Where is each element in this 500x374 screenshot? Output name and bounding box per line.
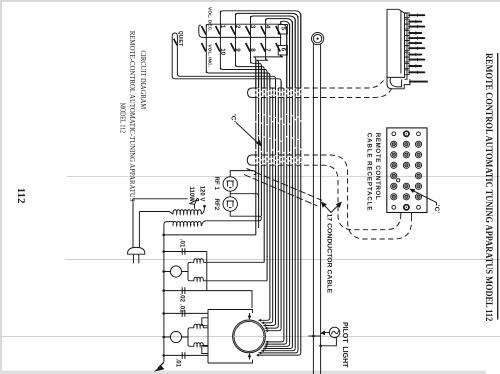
- switch blade top 4: [261, 26, 265, 35]
- svg-text:’C’: ’C’: [230, 114, 237, 122]
- svg-text:LIGHT: LIGHT: [341, 346, 348, 368]
- transformer T1 secondary winding: [173, 221, 201, 225]
- svg-text:VOL. INC.: VOL. INC.: [207, 44, 213, 67]
- switch column 5 wire: [280, 21, 282, 57]
- svg-text:REMOTE CONTROL AUTOMATIC TUNIN: REMOTE CONTROL AUTOMATIC TUNING APPARATU…: [484, 53, 495, 322]
- receptacle socket r6c3: [415, 183, 421, 189]
- svg-text:.01: .01: [178, 304, 185, 313]
- plug prong 1: [132, 254, 134, 263]
- switch blade bottom 6: [276, 43, 280, 52]
- wire switch top 1: [220, 11, 300, 88]
- wire RF1-RF2 junction: [230, 191, 258, 197]
- svg-text:120 V: 120 V: [199, 186, 205, 202]
- solenoid B1 circle: [170, 331, 181, 342]
- receptacle keyed socket row1: [404, 131, 409, 136]
- bus left hook: [199, 25, 203, 37]
- receptacle socket r6c1: [391, 183, 397, 189]
- receptacle keyed socket row8: [404, 205, 409, 210]
- switch column 0 wire: [205, 24, 207, 73]
- switch blade bottom 10: [216, 43, 220, 52]
- connector P1 pin 12: [410, 81, 427, 83]
- svg-text:8: 8: [249, 48, 256, 52]
- conductor 10: [280, 81, 282, 88]
- switch blade bottom 9: [231, 43, 235, 52]
- svg-text:.01: .01: [178, 239, 185, 248]
- conductor 9: [277, 88, 279, 98]
- boxed contact 6: [278, 46, 287, 56]
- scan edge bottom: [0, 371, 486, 374]
- wire switch bottom 7: [256, 58, 268, 88]
- svg-text:.01: .01: [175, 358, 182, 367]
- conductor 16: [297, 16, 299, 88]
- fold line B: [65, 259, 500, 261]
- wire switch bottom 9: [236, 64, 265, 88]
- switch column 2 wire: [235, 13, 237, 66]
- receptacle socket r7c2: [403, 194, 409, 200]
- plug cord left: [133, 199, 188, 248]
- wire switch top 4: [266, 19, 293, 88]
- connector P1 pin 7: [405, 46, 410, 51]
- relay unit frame wire: [207, 252, 252, 309]
- wire switch bottom 10: [220, 67, 267, 88]
- wire switch top VOL. DEC.: [206, 24, 286, 88]
- switch blade top 2: [231, 26, 235, 35]
- svg-text:RF 1: RF 1: [213, 177, 220, 191]
- conductor 5: [266, 72, 268, 88]
- motor M1 leads: [249, 313, 251, 360]
- svg-text:1: 1: [219, 25, 226, 29]
- switch column 1 wire: [219, 11, 221, 70]
- switch blade top VOL. DEC.: [202, 26, 206, 35]
- svg-text:QUIET: QUIET: [177, 31, 183, 46]
- cable sheath tube1 lower line: [252, 88, 392, 97]
- conductor 13: [289, 24, 291, 88]
- conductor 11: [283, 88, 285, 98]
- relay K1 winding upper: [194, 259, 204, 263]
- connector P1 pin 8: [405, 52, 410, 57]
- receptacle socket r4c2: [403, 162, 409, 168]
- svg-text:17 CONDUCTOR CABLE: 17 CONDUCTOR CABLE: [325, 214, 332, 294]
- jack J2: [312, 33, 324, 45]
- wire switch top 5: [281, 21, 290, 88]
- arrow to sheath: [331, 204, 339, 212]
- connector P1 foot: [387, 77, 410, 88]
- switch SW-QUIET: [172, 33, 177, 60]
- svg-text:MODEL 112: MODEL 112: [118, 103, 126, 133]
- switch blade top 5: [276, 26, 280, 35]
- bus end arrow: [158, 362, 164, 368]
- wire QUIET leg right: [177, 46, 275, 88]
- wire RF1 top: [230, 171, 255, 177]
- connector P1 pin 3: [405, 24, 410, 29]
- connector P1 pin 9: [405, 57, 410, 62]
- receptacle socket r5c1: [391, 173, 397, 179]
- voltage arrow: [190, 200, 197, 204]
- connector P1 pin 2: [405, 19, 410, 24]
- capacitor C4 .01: [164, 354, 208, 356]
- relay K1 winding leads: [188, 262, 194, 271]
- conductor 2: [258, 63, 260, 88]
- switch blade bottom VOL. INC.: [202, 43, 206, 52]
- wire relay lower winding to cable: [203, 280, 267, 282]
- transformer T1 primary winding: [173, 210, 201, 214]
- connector P1 pin 1: [405, 13, 410, 18]
- svg-text:.02: .02: [179, 293, 186, 302]
- arrow to diagonal cable: [323, 204, 331, 212]
- pilot lamp DS1: [329, 327, 339, 337]
- receptacle socket r4c1: [391, 162, 397, 168]
- transformer T1 secondary lead left: [164, 222, 174, 225]
- connector P1 side face: [401, 11, 407, 80]
- conductor 12: [286, 27, 288, 88]
- receptacle mounting hole row8: [392, 205, 396, 209]
- fold line C across motor: [234, 336, 264, 338]
- junction pilot left: [312, 335, 315, 338]
- receptacle socket r2c2: [403, 141, 409, 147]
- conductor 17: [300, 13, 302, 88]
- receptacle socket r2c1: [391, 141, 397, 147]
- receptacle socket r7c1: [391, 194, 397, 200]
- svg-text:7: 7: [264, 48, 271, 52]
- scan edge top: [0, 0, 500, 2]
- capacitor C2 .02: [164, 290, 207, 292]
- svg-text:CABLE RECEPTACLE: CABLE RECEPTACLE: [365, 133, 372, 212]
- junction pilot right: [319, 345, 322, 348]
- capacitor C1 .01: [164, 251, 207, 253]
- receptacle mounting hole row8: [417, 205, 421, 209]
- fold line C: [0, 336, 500, 338]
- wire switch top 3: [251, 16, 296, 88]
- receptacle socket r2c3: [415, 141, 421, 147]
- wire pilot pair left: [312, 43, 314, 374]
- svg-text:REMOTE CONTROL: REMOTE CONTROL: [374, 133, 381, 200]
- svg-text:PILOT: PILOT: [341, 322, 348, 343]
- cable sheath tube2 left cap: [247, 155, 252, 165]
- wire switch top 2: [236, 13, 298, 88]
- svg-text:3: 3: [249, 25, 256, 29]
- relay K1 winding lower: [194, 277, 204, 281]
- receptacle socket r4c3: [415, 162, 421, 168]
- wire pilot pair right: [320, 44, 322, 374]
- receptacle socket r6c2: [403, 183, 409, 189]
- svg-text:112: 112: [15, 188, 26, 204]
- switch column 4 wire: [265, 19, 267, 61]
- wire relay upper winding to cable: [203, 261, 264, 263]
- wire switch bottom 8: [251, 61, 262, 88]
- frame tab lower: [202, 346, 208, 354]
- receptacle socket r7c3: [415, 194, 421, 200]
- receptacle mounting hole row1: [392, 132, 396, 136]
- svg-text:REMOTE-CONTROL AUTOMATIC-TUNIN: REMOTE-CONTROL AUTOMATIC-TUNING APPARATU…: [128, 31, 138, 202]
- plug body: [128, 247, 145, 254]
- svg-text:4: 4: [264, 25, 271, 29]
- svg-text:RF2: RF2: [213, 199, 220, 211]
- receptacle socket r3c3: [415, 152, 421, 158]
- switch blade top 1: [216, 26, 220, 35]
- connector P1 pin 11: [405, 70, 410, 75]
- conductor 7: [272, 88, 274, 98]
- svg-text:CIRCUIT DIAGRAM: CIRCUIT DIAGRAM: [139, 50, 148, 109]
- receptacle socket r5c3: [415, 173, 421, 179]
- svg-text:2: 2: [234, 25, 241, 29]
- wire lamp left lead: [322, 331, 329, 333]
- conductor 3: [260, 66, 262, 88]
- capacitor C3 .01: [164, 312, 208, 314]
- solenoid B1 winding upper: [194, 324, 204, 328]
- switch blade bottom 8: [246, 43, 250, 52]
- connector P1 pin 5: [405, 36, 410, 41]
- switch common bus: [202, 36, 281, 38]
- cable sheath tube1 upper line: [252, 81, 383, 89]
- relay K1 circle: [170, 266, 181, 277]
- wire relay top feeder: [164, 234, 256, 236]
- svg-text:5: 5: [279, 27, 286, 31]
- tube RF2: [223, 197, 237, 211]
- conductor 6: [269, 76, 271, 89]
- connector P1 pin 6: [405, 41, 410, 46]
- conductor 4: [263, 69, 265, 88]
- svg-text:6: 6: [279, 48, 286, 52]
- solenoid B1 winding lower: [194, 343, 204, 347]
- cable sheath tube2 upper + U outer: [252, 155, 411, 239]
- connector P1 pin 10: [405, 64, 410, 69]
- motor unit frame: [208, 310, 253, 364]
- receptacle bottom leads: [400, 213, 402, 216]
- wire switch bottom VOL. INC.: [206, 71, 270, 89]
- svg-text:9: 9: [234, 48, 241, 52]
- tube RF1: [223, 177, 237, 191]
- receptacle socket r3c1: [391, 152, 397, 158]
- wire B1 windings to frame: [203, 328, 208, 347]
- svg-text:’C’: ’C’: [433, 205, 440, 213]
- wire lamp bottom lead: [321, 338, 337, 346]
- connector P1 pin 4: [405, 31, 410, 36]
- main bus: [163, 225, 165, 363]
- transformer T1 primary lead right: [201, 207, 204, 214]
- scan edge left: [0, 0, 2, 374]
- node C right: [412, 190, 437, 206]
- page header underline: [497, 53, 499, 320]
- fold line A: [67, 176, 500, 178]
- switch blade bottom 7: [261, 43, 265, 52]
- wire QUIET leg left: [172, 60, 281, 88]
- motor M1: [233, 320, 266, 353]
- wire RF2 bottom: [230, 211, 261, 218]
- transformer T1 secondary lead right: [201, 218, 261, 226]
- svg-text:110W: 110W: [188, 187, 194, 203]
- svg-text:10: 10: [219, 48, 226, 55]
- conductor 14: [291, 21, 293, 88]
- wire switch bottom 6: [253, 54, 283, 88]
- cable sheath tube2 lower + U inner: [252, 165, 400, 230]
- plug cord right: [138, 212, 140, 248]
- conductor 15: [294, 19, 296, 89]
- receptacle J1 outline: [387, 128, 427, 213]
- conductor 1: [255, 59, 257, 88]
- svg-text:VOL. DEC.: VOL. DEC.: [207, 7, 213, 32]
- cable tail diagonal pair: [247, 169, 323, 201]
- receptacle socket r3c2: [403, 152, 409, 158]
- wire pilot cross tick: [309, 335, 321, 337]
- switch blade top 3: [246, 26, 250, 35]
- solenoid B1 winding leads: [188, 328, 194, 337]
- receptacle mounting hole row1: [417, 132, 421, 136]
- cable sheath tube1 left cap: [248, 88, 253, 98]
- receptacle small hole: [397, 179, 400, 182]
- plug prong 2: [138, 254, 140, 263]
- frame tab upper: [202, 318, 208, 326]
- conductor 8: [275, 79, 277, 88]
- connector P1 body: [387, 9, 405, 77]
- boxed contact 5: [278, 25, 287, 35]
- switch column 3 wire: [250, 16, 252, 63]
- transformer T1 primary lead left: [139, 212, 173, 215]
